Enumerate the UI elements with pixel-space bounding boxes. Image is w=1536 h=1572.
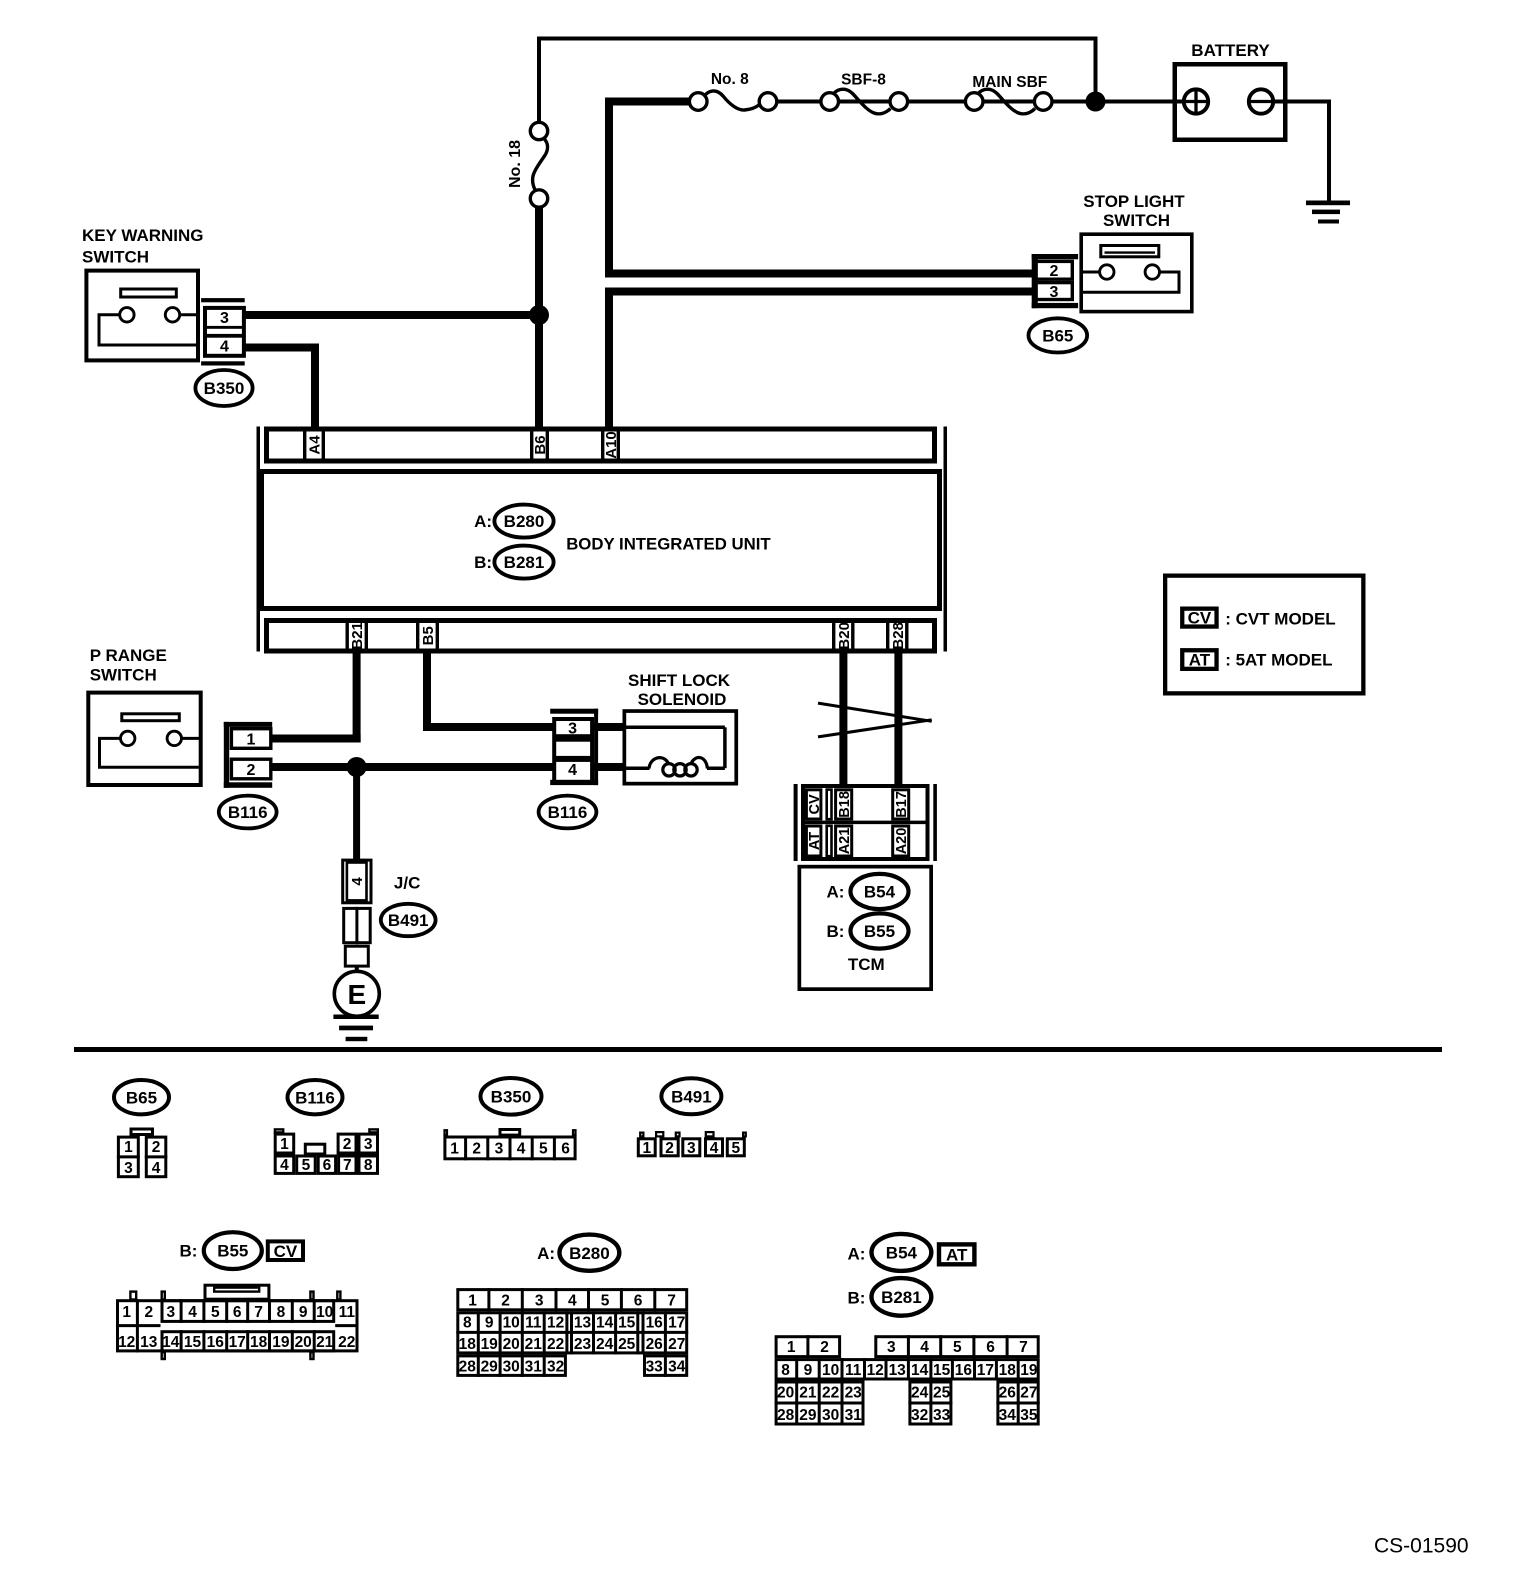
svg-text:33: 33 xyxy=(933,1407,951,1424)
svg-text:13: 13 xyxy=(140,1334,158,1351)
svg-text:B65: B65 xyxy=(1042,327,1073,346)
svg-text:32: 32 xyxy=(911,1407,928,1424)
TCM connector strip right bar xyxy=(933,784,937,861)
svg-text:B17: B17 xyxy=(894,791,910,818)
svg-text:AT: AT xyxy=(1189,651,1211,670)
TCM pin row CV marker xyxy=(806,790,822,819)
TCM connector label B: B55 xyxy=(826,913,908,948)
svg-text:5: 5 xyxy=(302,1157,311,1174)
svg-text:SHIFT LOCK: SHIFT LOCK xyxy=(628,671,731,690)
wire fuse SBF-8 to fuse MAIN SBF xyxy=(908,100,966,104)
connector pinout B280 body xyxy=(456,1288,688,1377)
svg-text:4: 4 xyxy=(920,1339,929,1356)
B55 pin numbers row 2 xyxy=(118,1334,355,1351)
svg-text:3: 3 xyxy=(495,1141,504,1158)
connector B116 (shift lock solenoid) pins 3,4 xyxy=(550,709,623,785)
svg-text:29: 29 xyxy=(481,1358,499,1375)
svg-text:B54: B54 xyxy=(864,883,896,902)
connector label B116 (left) xyxy=(219,796,277,829)
svg-text:13: 13 xyxy=(889,1362,907,1379)
pin 3 label xyxy=(568,721,577,738)
crossing marker on TCM wires xyxy=(818,703,932,737)
svg-text:1: 1 xyxy=(280,1136,289,1153)
wire BIU pin B21 down to P range switch pin 1 xyxy=(272,651,361,743)
svg-text:A21: A21 xyxy=(837,828,853,855)
svg-text:9: 9 xyxy=(485,1314,494,1331)
body integrated unit left side bar xyxy=(257,427,261,652)
ground terminal E xyxy=(334,965,379,1016)
svg-text:8: 8 xyxy=(781,1362,790,1379)
svg-text:15: 15 xyxy=(933,1362,951,1379)
svg-text:CV: CV xyxy=(1188,609,1212,628)
wire MAIN SBF to battery positive xyxy=(1052,100,1183,104)
svg-text:4: 4 xyxy=(710,1140,719,1157)
key warning switch slot xyxy=(121,289,177,297)
svg-text:19: 19 xyxy=(1020,1362,1038,1379)
fuse No. 18 xyxy=(507,122,548,207)
svg-text:33: 33 xyxy=(646,1358,664,1375)
svg-text:6: 6 xyxy=(986,1339,995,1356)
svg-text:2: 2 xyxy=(343,1136,352,1153)
svg-text:18: 18 xyxy=(250,1334,268,1351)
svg-text:8: 8 xyxy=(277,1304,286,1321)
svg-text:14: 14 xyxy=(596,1314,614,1331)
svg-text:3: 3 xyxy=(687,1140,696,1157)
svg-text:BODY INTEGRATED UNIT: BODY INTEGRATED UNIT xyxy=(566,535,771,554)
TCM pin row AT marker xyxy=(806,826,822,856)
connector pinout label B: B281 xyxy=(847,1278,931,1316)
svg-text:A4: A4 xyxy=(306,435,323,455)
svg-text:1: 1 xyxy=(122,1304,131,1321)
TCM empty cell row2 xyxy=(827,826,832,856)
svg-text:B116: B116 xyxy=(295,1088,335,1107)
svg-text:2: 2 xyxy=(665,1140,674,1157)
svg-text:16: 16 xyxy=(207,1334,225,1351)
svg-text:21: 21 xyxy=(799,1384,817,1401)
connector label B65 xyxy=(1029,318,1088,352)
ground (E) xyxy=(333,1015,378,1042)
svg-text:B491: B491 xyxy=(671,1087,712,1106)
svg-text:P RANGE: P RANGE xyxy=(90,646,167,665)
svg-text:No. 8: No. 8 xyxy=(711,71,749,88)
svg-text:16: 16 xyxy=(646,1314,664,1331)
svg-text:B54: B54 xyxy=(886,1244,918,1263)
svg-text:10: 10 xyxy=(503,1314,520,1331)
svg-text:A:: A: xyxy=(474,512,492,531)
svg-text:11: 11 xyxy=(525,1314,542,1331)
pin 4 label xyxy=(220,339,229,356)
svg-text:29: 29 xyxy=(799,1407,817,1424)
svg-text:15: 15 xyxy=(618,1314,636,1331)
key warning switch contacts xyxy=(99,308,197,345)
svg-text:A10: A10 xyxy=(603,431,620,459)
B55 pin numbers row 1 xyxy=(122,1304,355,1321)
node junction of bypass wire and battery feed xyxy=(1086,92,1106,112)
drawing number CS-01590 xyxy=(1374,1534,1469,1557)
connector pinout B116 label xyxy=(288,1080,343,1114)
svg-text:SWITCH: SWITCH xyxy=(90,665,157,684)
svg-text:26: 26 xyxy=(999,1384,1017,1401)
pin 2 label xyxy=(247,762,256,779)
svg-text:24: 24 xyxy=(911,1384,929,1401)
svg-text:22: 22 xyxy=(338,1334,355,1351)
svg-text:J/C: J/C xyxy=(394,874,420,893)
wire BIU pin B5 to shift lock solenoid pin 3 xyxy=(423,651,553,731)
connector pinout B350 label xyxy=(481,1078,542,1115)
svg-text:3: 3 xyxy=(166,1304,175,1321)
svg-text:SWITCH: SWITCH xyxy=(82,248,149,267)
connector pinout B491 label xyxy=(661,1078,721,1114)
solenoid coil xyxy=(649,757,707,776)
svg-text:B:: B: xyxy=(179,1242,197,1261)
svg-text:B350: B350 xyxy=(204,379,245,398)
svg-text:4: 4 xyxy=(220,339,229,356)
J/C lower section xyxy=(345,946,368,966)
BIU connector label B: B281 xyxy=(474,546,553,579)
svg-text:B:: B: xyxy=(474,553,492,572)
TCM pin B17 xyxy=(893,790,910,819)
svg-text:B20: B20 xyxy=(836,622,853,650)
svg-text:A:: A: xyxy=(537,1244,555,1263)
svg-text:31: 31 xyxy=(845,1407,863,1424)
svg-text:1: 1 xyxy=(124,1139,133,1156)
svg-text:STOP LIGHT: STOP LIGHT xyxy=(1083,192,1185,211)
connector pinout B54 body xyxy=(775,1335,1040,1425)
svg-text:9: 9 xyxy=(804,1362,813,1379)
svg-text:2: 2 xyxy=(501,1292,510,1309)
svg-text:17: 17 xyxy=(668,1314,685,1331)
legend 5AT text xyxy=(1225,650,1332,669)
legend box xyxy=(1165,576,1363,694)
TCM connector strip xyxy=(801,786,930,859)
svg-text:1: 1 xyxy=(468,1292,477,1309)
AT marker next to B54 xyxy=(939,1244,974,1264)
wire BIU pin B28 down to TCM xyxy=(894,651,902,785)
wire B6: fuse No.18 to BIU pin B6 xyxy=(535,206,543,428)
connector label B116 (right) xyxy=(539,796,597,829)
pin 1 label xyxy=(247,731,256,748)
wire fuse No.8 to fuse SBF-8 xyxy=(776,100,822,104)
svg-text:34: 34 xyxy=(999,1407,1017,1424)
svg-text:5: 5 xyxy=(211,1304,220,1321)
svg-text:12: 12 xyxy=(547,1314,564,1331)
battery positive terminal xyxy=(1184,89,1208,113)
wire stop light switch pin 3 to BIU pin A10 xyxy=(605,288,1032,429)
svg-text:2: 2 xyxy=(1050,263,1059,280)
B491 pin numbers xyxy=(642,1140,740,1157)
svg-text:B:: B: xyxy=(847,1289,865,1308)
svg-text:5: 5 xyxy=(539,1141,548,1158)
pin B21 xyxy=(347,620,366,651)
wire BIU pin B20 down to TCM xyxy=(839,651,847,785)
svg-text:KEY WARNING: KEY WARNING xyxy=(82,226,204,245)
svg-text:B65: B65 xyxy=(126,1088,157,1107)
svg-text:3: 3 xyxy=(535,1292,544,1309)
BIU connector label A: B280 xyxy=(474,505,553,538)
svg-text:5: 5 xyxy=(953,1339,962,1356)
svg-text:B280: B280 xyxy=(504,512,545,531)
svg-text:30: 30 xyxy=(503,1358,520,1375)
P range switch slot xyxy=(122,714,180,721)
TCM empty cell row1 xyxy=(827,790,832,820)
svg-text:19: 19 xyxy=(481,1336,499,1353)
pin A4 xyxy=(305,429,324,462)
connector B116 (P range switch) pins 1,2 xyxy=(224,722,272,788)
pin B5 xyxy=(418,620,438,651)
connector pinout B55 body xyxy=(116,1285,359,1359)
svg-text:23: 23 xyxy=(574,1336,592,1353)
connector B350 (key warning switch) pins 3,4 xyxy=(201,298,245,365)
TCM title xyxy=(848,955,885,974)
B54 pin numbers row 2 xyxy=(781,1362,1038,1379)
svg-text:3: 3 xyxy=(220,310,229,327)
svg-text:10: 10 xyxy=(822,1362,839,1379)
svg-text:14: 14 xyxy=(911,1362,929,1379)
connector label B350 xyxy=(195,370,252,406)
svg-text:3: 3 xyxy=(124,1160,133,1177)
svg-text:7: 7 xyxy=(667,1292,676,1309)
B280 pin numbers row 4 xyxy=(459,1358,686,1375)
svg-text:B6: B6 xyxy=(532,435,549,454)
svg-text:B28: B28 xyxy=(890,622,907,650)
svg-text:4: 4 xyxy=(517,1141,526,1158)
svg-text:23: 23 xyxy=(845,1384,863,1401)
svg-text:22: 22 xyxy=(822,1384,839,1401)
svg-text:28: 28 xyxy=(459,1358,477,1375)
connector pinout B65 body xyxy=(117,1129,167,1177)
svg-text:6: 6 xyxy=(323,1157,332,1174)
svg-text:SBF-8: SBF-8 xyxy=(841,72,886,89)
svg-text:25: 25 xyxy=(933,1384,951,1401)
svg-text:1: 1 xyxy=(450,1141,459,1158)
key warning switch xyxy=(82,226,204,360)
svg-text:BATTERY: BATTERY xyxy=(1191,41,1270,60)
svg-text:3: 3 xyxy=(568,721,577,738)
svg-text:4: 4 xyxy=(280,1157,289,1174)
wire bypass from fuse No.18 top to battery junction xyxy=(539,39,1096,125)
svg-text:2: 2 xyxy=(144,1304,153,1321)
connector pinout B116 body xyxy=(275,1129,378,1173)
svg-text:16: 16 xyxy=(955,1362,973,1379)
svg-text:26: 26 xyxy=(646,1336,664,1353)
B65 pin numbers xyxy=(124,1139,161,1177)
connector pinout B491 body xyxy=(638,1132,746,1156)
svg-text:B55: B55 xyxy=(217,1242,248,1261)
svg-text:B21: B21 xyxy=(349,622,366,650)
TCM pin A20 xyxy=(893,826,910,856)
pin 2 label xyxy=(1050,263,1059,280)
connector pinout B350 body xyxy=(445,1130,576,1161)
svg-text:AT: AT xyxy=(946,1246,968,1265)
svg-text:A:: A: xyxy=(847,1244,865,1263)
J/C junction connector B491 pin 4 xyxy=(343,860,371,903)
body integrated unit right side bar xyxy=(944,427,948,652)
svg-text:20: 20 xyxy=(777,1384,794,1401)
svg-text:2: 2 xyxy=(472,1141,481,1158)
svg-text:8: 8 xyxy=(364,1157,373,1174)
svg-text:15: 15 xyxy=(184,1334,202,1351)
svg-text:: CVT MODEL: : CVT MODEL xyxy=(1225,609,1336,628)
svg-text:34: 34 xyxy=(668,1358,686,1375)
svg-text:19: 19 xyxy=(272,1334,290,1351)
svg-text:2: 2 xyxy=(820,1339,829,1356)
B280 pin numbers row 1 xyxy=(468,1292,676,1309)
svg-text:5: 5 xyxy=(601,1292,610,1309)
TCM box xyxy=(799,867,931,990)
svg-text:2: 2 xyxy=(152,1139,161,1156)
svg-text:17: 17 xyxy=(977,1362,994,1379)
stop light switch slot xyxy=(1101,246,1159,257)
svg-text:11: 11 xyxy=(339,1304,356,1321)
svg-text:4: 4 xyxy=(568,1292,577,1309)
svg-text:6: 6 xyxy=(233,1304,242,1321)
pin B6 xyxy=(532,429,549,462)
svg-text:3: 3 xyxy=(1050,284,1059,301)
P range switch xyxy=(88,646,200,785)
svg-text:B5: B5 xyxy=(420,626,437,645)
TCM connector strip left bar xyxy=(794,784,798,861)
pin B28 xyxy=(888,620,907,651)
P range switch contacts xyxy=(100,731,200,767)
svg-text:21: 21 xyxy=(525,1336,543,1353)
B350 pin numbers xyxy=(450,1141,570,1158)
BIU title xyxy=(566,535,771,554)
svg-text:4: 4 xyxy=(349,877,366,886)
svg-text:1: 1 xyxy=(247,731,256,748)
TCM connector label A: B54 xyxy=(826,874,908,909)
svg-text:1: 1 xyxy=(787,1339,796,1356)
svg-text:B280: B280 xyxy=(569,1244,610,1263)
pin 4 label xyxy=(568,762,577,779)
battery xyxy=(1175,41,1286,140)
svg-text:B281: B281 xyxy=(504,553,545,572)
svg-text:7: 7 xyxy=(254,1304,263,1321)
J/C middle section xyxy=(344,907,371,944)
svg-text:B491: B491 xyxy=(388,911,429,930)
TCM pin B18 xyxy=(836,790,853,819)
connector label B491 xyxy=(381,904,436,936)
svg-text:E: E xyxy=(347,979,366,1010)
solenoid internal wiring xyxy=(623,727,725,768)
legend CV marker xyxy=(1182,609,1216,628)
svg-text:CV: CV xyxy=(274,1242,298,1261)
BIU bottom connector strip xyxy=(267,621,935,652)
wire key warning switch pin 3 to B6 junction xyxy=(245,311,543,319)
svg-text:20: 20 xyxy=(295,1334,312,1351)
svg-text:B:: B: xyxy=(826,922,844,941)
svg-text:4: 4 xyxy=(188,1304,197,1321)
ground (battery) xyxy=(1306,201,1350,224)
svg-text:CS-01590: CS-01590 xyxy=(1374,1534,1469,1557)
pin B20 xyxy=(834,620,853,651)
wire battery negative to ground xyxy=(1273,100,1331,201)
svg-text:18: 18 xyxy=(459,1336,477,1353)
legend AT marker xyxy=(1182,650,1216,669)
svg-text:35: 35 xyxy=(1020,1407,1038,1424)
svg-text:21: 21 xyxy=(316,1334,334,1351)
svg-text:12: 12 xyxy=(118,1334,135,1351)
body integrated unit box xyxy=(262,472,940,609)
connector pinout label A: B54 xyxy=(847,1234,931,1271)
pin 3 label xyxy=(1050,284,1059,301)
legend CVT text xyxy=(1225,609,1336,628)
B54 pin numbers row 1 xyxy=(787,1339,1028,1356)
TCM pin A21 xyxy=(836,826,853,856)
svg-text:18: 18 xyxy=(999,1362,1017,1379)
svg-text:24: 24 xyxy=(596,1336,614,1353)
connector pinout B65 label xyxy=(114,1080,169,1114)
svg-text:30: 30 xyxy=(822,1407,839,1424)
svg-text:27: 27 xyxy=(668,1336,685,1353)
B54 pin numbers row 4 xyxy=(777,1407,1038,1424)
svg-text:B281: B281 xyxy=(881,1288,922,1307)
B280 pin numbers row 2 xyxy=(463,1314,685,1331)
svg-text:4: 4 xyxy=(568,762,577,779)
svg-text:25: 25 xyxy=(618,1336,636,1353)
connector pinout label B: B55 xyxy=(179,1232,261,1269)
fuse SBF-8 xyxy=(821,72,908,114)
svg-text:MAIN SBF: MAIN SBF xyxy=(972,74,1047,91)
svg-text:CV: CV xyxy=(807,794,823,814)
svg-text:6: 6 xyxy=(561,1141,570,1158)
wire junction down to J/C xyxy=(353,767,360,859)
svg-text:31: 31 xyxy=(525,1358,543,1375)
J/C label xyxy=(394,874,420,893)
svg-text:1: 1 xyxy=(642,1140,651,1157)
connector pinout label A: B280 xyxy=(537,1235,619,1271)
pin 3 label xyxy=(220,310,229,327)
svg-text:B350: B350 xyxy=(491,1087,532,1106)
svg-text:2: 2 xyxy=(247,762,256,779)
node junction on B6 wire to key warning switch xyxy=(529,305,549,325)
svg-text:3: 3 xyxy=(887,1339,896,1356)
CV marker next to B55 xyxy=(268,1241,303,1260)
svg-text:27: 27 xyxy=(1020,1384,1037,1401)
svg-text:B116: B116 xyxy=(548,803,588,822)
wire key warning switch pin 4 to BIU pin A4 xyxy=(245,344,319,429)
svg-text:14: 14 xyxy=(162,1334,180,1351)
svg-text:5: 5 xyxy=(731,1140,740,1157)
node junction on pin2 bus to J/C xyxy=(347,757,367,777)
svg-text:13: 13 xyxy=(574,1314,592,1331)
pin A10 xyxy=(603,429,620,462)
svg-text:32: 32 xyxy=(547,1358,564,1375)
shift lock solenoid xyxy=(624,671,736,784)
svg-text:22: 22 xyxy=(547,1336,564,1353)
svg-text:B18: B18 xyxy=(837,791,853,818)
svg-text:6: 6 xyxy=(634,1292,643,1309)
fuse MAIN SBF xyxy=(965,74,1052,114)
svg-text:7: 7 xyxy=(343,1157,352,1174)
svg-text:: 5AT MODEL: : 5AT MODEL xyxy=(1225,650,1332,669)
svg-text:17: 17 xyxy=(229,1334,246,1351)
svg-text:10: 10 xyxy=(316,1304,333,1321)
svg-text:28: 28 xyxy=(777,1407,795,1424)
svg-text:SOLENOID: SOLENOID xyxy=(638,690,727,709)
svg-text:B116: B116 xyxy=(228,803,268,822)
svg-text:11: 11 xyxy=(845,1362,862,1379)
svg-text:SWITCH: SWITCH xyxy=(1103,211,1170,230)
svg-text:8: 8 xyxy=(463,1314,472,1331)
connector B65 (stop light switch) pins 2,3 xyxy=(1032,254,1078,308)
svg-text:No. 18: No. 18 xyxy=(507,140,524,188)
B54 pin numbers row 3 xyxy=(777,1384,1038,1401)
BIU top connector strip xyxy=(267,429,935,461)
svg-text:20: 20 xyxy=(503,1336,520,1353)
svg-text:AT: AT xyxy=(807,832,823,850)
svg-text:3: 3 xyxy=(364,1136,373,1153)
wire fuse chain elbow down to stop light switch pin 2 xyxy=(605,98,1032,278)
